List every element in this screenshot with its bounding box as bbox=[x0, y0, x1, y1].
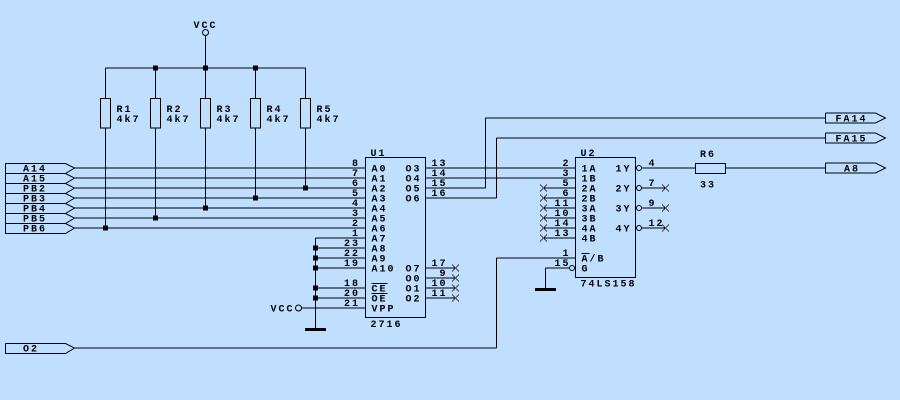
svg-text:U2: U2 bbox=[581, 149, 597, 160]
wire net O2 horizontal bbox=[75, 347, 497, 349]
wire R2 top lead bbox=[155, 68, 157, 99]
U1 pin 9 label O0 bbox=[405, 269, 447, 286]
power VCC symbol at VPP bbox=[271, 305, 302, 316]
svg-text:PB6: PB6 bbox=[23, 225, 47, 236]
svg-text:R6: R6 bbox=[700, 150, 716, 161]
junction R3 to bus bbox=[203, 206, 208, 211]
junction ground bus y268 bbox=[313, 266, 318, 271]
wire net FA15 top bbox=[497, 137, 826, 139]
resistor R1 bbox=[101, 99, 141, 129]
svg-text:G: G bbox=[582, 265, 590, 276]
svg-text:VCC: VCC bbox=[271, 305, 295, 316]
wire U1 pin 11 nc stub bbox=[426, 297, 456, 299]
U1 pin 19 label A10 bbox=[344, 259, 396, 276]
U2 pin 15 label G bbox=[554, 259, 589, 276]
U1 pin 3 label A5 bbox=[352, 209, 388, 226]
U1 pin 22 label A9 bbox=[344, 249, 388, 266]
wire R4 bottom lead bbox=[255, 128, 257, 198]
U2 pin 10 label 3B bbox=[554, 209, 597, 226]
U2 pin 9 inversion bubble bbox=[637, 206, 642, 211]
wire ground bus vertical bbox=[315, 238, 317, 328]
U2 pin 2 label 1A bbox=[562, 159, 597, 176]
svg-text:4B: 4B bbox=[582, 235, 598, 246]
svg-text:2Y: 2Y bbox=[615, 185, 631, 196]
IC U2 74LS158 box bbox=[576, 158, 636, 278]
U2 pin 12 inversion bubble bbox=[637, 226, 642, 231]
junction ground bus y258 bbox=[313, 256, 318, 261]
IC U1 2716 box bbox=[366, 158, 426, 318]
svg-text:74LS158: 74LS158 bbox=[581, 280, 637, 291]
U2 pin 11 label 3A bbox=[554, 199, 597, 216]
no-connect X U2 pin 10 bbox=[540, 215, 547, 222]
wire A14 to U1 bbox=[75, 167, 366, 169]
junction VCC rail x205 bbox=[203, 66, 208, 71]
no-connect X U2 pin 9 bbox=[662, 205, 669, 212]
no-connect X U1 pin 9 bbox=[452, 275, 459, 282]
wire U2 pin 12 nc stub bbox=[642, 227, 666, 229]
resistor R2 bbox=[151, 99, 191, 129]
wire R6 to A8 flag bbox=[726, 167, 826, 169]
wire R5 bottom lead bbox=[305, 128, 307, 188]
wire PB6 to U1 bbox=[75, 227, 366, 229]
svg-text:4k7: 4k7 bbox=[167, 114, 191, 126]
wire R4 top lead bbox=[255, 68, 257, 99]
wire R1 top lead bbox=[105, 68, 107, 99]
U2 pin 7 label 2Y bbox=[615, 179, 656, 196]
U1 pin 1 label A7 bbox=[352, 229, 388, 246]
no-connect X U2 pin 13 bbox=[540, 235, 547, 242]
junction VCC rail x255 bbox=[253, 66, 258, 71]
resistor R5 bbox=[301, 99, 341, 129]
node A14 input flag bbox=[6, 164, 75, 176]
resistor R4 bbox=[251, 99, 291, 129]
svg-text:FA15: FA15 bbox=[836, 135, 868, 146]
wire O5 net FA14 horizontal bbox=[426, 187, 486, 189]
wire ground bus to U1 y248 bbox=[316, 247, 366, 249]
U2 pin 6 label 2B bbox=[562, 189, 597, 206]
U1 pin 7 label A1 bbox=[352, 169, 388, 186]
no-connect X U1 pin 10 bbox=[452, 285, 459, 292]
no-connect X U2 pin 5 bbox=[540, 185, 547, 192]
svg-text:1Y: 1Y bbox=[615, 165, 631, 176]
svg-text:VCC: VCC bbox=[194, 21, 218, 32]
U1 pin 2 label A6 bbox=[352, 219, 388, 236]
svg-text:U1: U1 bbox=[371, 149, 387, 160]
wire VCC rail bbox=[106, 67, 306, 69]
svg-text:O2: O2 bbox=[405, 295, 421, 306]
svg-text:4k7: 4k7 bbox=[267, 114, 291, 126]
U1 pin 20 label OE bbox=[344, 289, 388, 306]
U1 pin 18 label CE bbox=[344, 279, 388, 296]
junction ground bus y248 bbox=[313, 246, 318, 251]
junction R1 to bus bbox=[103, 226, 108, 231]
U2 pin 15 inversion bubble G bbox=[570, 266, 575, 271]
junction VCC rail x155 bbox=[153, 66, 158, 71]
wire O4 to U2 1B bbox=[426, 177, 576, 179]
wire U1 pin 9 nc stub bbox=[426, 277, 456, 279]
ground symbol at U2 G bbox=[535, 288, 556, 291]
svg-text:O6: O6 bbox=[405, 195, 421, 206]
wire ground bus to U1 y258 bbox=[316, 257, 366, 259]
junction R2 to bus bbox=[153, 216, 158, 221]
junction R5 to bus bbox=[303, 186, 308, 191]
wire net FA14 vertical bbox=[485, 118, 487, 188]
svg-text:2716: 2716 bbox=[371, 320, 403, 331]
node A8 output flag bbox=[826, 163, 886, 176]
wire PB5 to U1 bbox=[75, 217, 366, 219]
node PB6 input flag bbox=[6, 224, 75, 236]
svg-text:4Y: 4Y bbox=[615, 225, 631, 236]
U1 pin 16 label O6 bbox=[405, 189, 447, 206]
wire U2 pin 11 nc stub bbox=[544, 207, 576, 209]
ground symbol under U1 bbox=[305, 328, 326, 331]
node PB5 input flag bbox=[6, 214, 75, 226]
resistor R6 bbox=[696, 150, 726, 192]
U1 pin 5 label A3 bbox=[352, 189, 388, 206]
no-connect X U1 pin 11 bbox=[452, 295, 459, 302]
U1 pin 17 label O7 bbox=[405, 259, 447, 276]
wire ground bus to U1 y298 bbox=[316, 297, 366, 299]
node PB2 input flag bbox=[6, 184, 75, 196]
node PB4 input flag bbox=[6, 204, 75, 216]
junction R4 to bus bbox=[253, 196, 258, 201]
U2 pin 1 label A/B bbox=[562, 249, 605, 266]
U1 pin 23 label A8 bbox=[344, 239, 388, 256]
wire U2 pin 13 nc stub bbox=[544, 237, 576, 239]
no-connect X U2 pin 6 bbox=[540, 195, 547, 202]
svg-text:4k7: 4k7 bbox=[317, 114, 341, 126]
wire net FA14 top bbox=[486, 117, 826, 119]
wire R3 bottom lead bbox=[205, 128, 207, 208]
svg-text:A8: A8 bbox=[844, 165, 860, 176]
U2 pin 4 inversion bubble bbox=[637, 166, 642, 171]
wire R2 bottom lead bbox=[155, 128, 157, 218]
wire U2 pin 5 nc stub bbox=[544, 187, 576, 189]
wire U2 A/B to corner bbox=[497, 257, 576, 259]
U2 pin 14 label 4A bbox=[554, 219, 597, 236]
wire U2 pin 14 nc stub bbox=[544, 227, 576, 229]
power VCC symbol top bbox=[194, 21, 218, 68]
no-connect X U2 pin 12 bbox=[662, 225, 669, 232]
U1 pin 11 label O2 bbox=[405, 289, 447, 306]
node O2 input flag bbox=[6, 344, 75, 356]
svg-text:4k7: 4k7 bbox=[217, 114, 241, 126]
wire PB3 to U1 bbox=[75, 197, 366, 199]
node A15 input flag bbox=[6, 174, 75, 186]
svg-text:4k7: 4k7 bbox=[117, 114, 141, 126]
svg-text:O2: O2 bbox=[23, 345, 39, 356]
wire A15 to U1 bbox=[75, 177, 366, 179]
svg-text:33: 33 bbox=[700, 181, 716, 192]
wire U1 pin 10 nc stub bbox=[426, 287, 456, 289]
U1 pin 8 label A0 bbox=[352, 159, 388, 176]
svg-text:VPP: VPP bbox=[372, 305, 396, 316]
U2 pin 4 label 1Y bbox=[615, 159, 656, 176]
node PB3 input flag bbox=[6, 194, 75, 206]
wire R1 bottom lead bbox=[105, 128, 107, 228]
no-connect X U2 pin 14 bbox=[540, 225, 547, 232]
wire R5 top lead bbox=[305, 68, 307, 99]
wire G to ground bbox=[546, 268, 570, 288]
U2 pin 12 label 4Y bbox=[615, 219, 664, 236]
junction ground bus y288 bbox=[313, 286, 318, 291]
no-connect X U2 pin 11 bbox=[540, 205, 547, 212]
U1 pin 14 label O4 bbox=[405, 169, 447, 186]
node FA14 output flag bbox=[826, 113, 886, 126]
wire ground bus to U1 y238 bbox=[316, 237, 366, 239]
wire net FA15 vertical bbox=[496, 138, 498, 198]
svg-text:3Y: 3Y bbox=[615, 205, 631, 216]
wire U2 pin 9 nc stub bbox=[642, 207, 666, 209]
wire R3 top lead bbox=[205, 68, 207, 99]
svg-text:A10: A10 bbox=[372, 265, 396, 276]
wire net O2 vertical bbox=[496, 258, 498, 348]
wire U2 pin 10 nc stub bbox=[544, 217, 576, 219]
wire O3 to U2 1A bbox=[426, 167, 576, 169]
wire U2 1Y to R6 bbox=[642, 167, 696, 169]
wire VCC to VPP bbox=[302, 307, 366, 309]
wire U2 pin 6 nc stub bbox=[544, 197, 576, 199]
svg-text:FA14: FA14 bbox=[836, 115, 868, 126]
wire O6 net FA15 horizontal bbox=[426, 197, 497, 199]
U2 pin 5 label 2A bbox=[562, 179, 597, 196]
U2 pin 7 inversion bubble bbox=[637, 186, 642, 191]
U1 pin 4 label A4 bbox=[352, 199, 388, 216]
junction ground bus y298 bbox=[313, 296, 318, 301]
resistor R3 bbox=[201, 99, 241, 129]
node FA15 output flag bbox=[826, 133, 886, 146]
wire ground bus to U1 y268 bbox=[316, 267, 366, 269]
wire U2 pin 7 nc stub bbox=[642, 187, 666, 189]
no-connect X U2 pin 7 bbox=[662, 185, 669, 192]
U2 pin 3 label 1B bbox=[562, 169, 597, 186]
wire PB4 to U1 bbox=[75, 207, 366, 209]
wire PB2 to U1 bbox=[75, 187, 366, 189]
U1 pin 15 label O5 bbox=[405, 179, 447, 196]
wire ground bus to U1 y288 bbox=[316, 287, 366, 289]
U1 pin 21 label VPP bbox=[344, 299, 396, 316]
wire U1 pin 17 nc stub bbox=[426, 267, 456, 269]
U1 pin 6 label A2 bbox=[352, 179, 388, 196]
U2 pin 9 label 3Y bbox=[615, 199, 656, 216]
no-connect X U1 pin 17 bbox=[452, 265, 459, 272]
U1 pin 13 label O3 bbox=[405, 159, 447, 176]
U2 pin 13 label 4B bbox=[554, 229, 597, 246]
U1 pin 10 label O1 bbox=[405, 279, 447, 296]
